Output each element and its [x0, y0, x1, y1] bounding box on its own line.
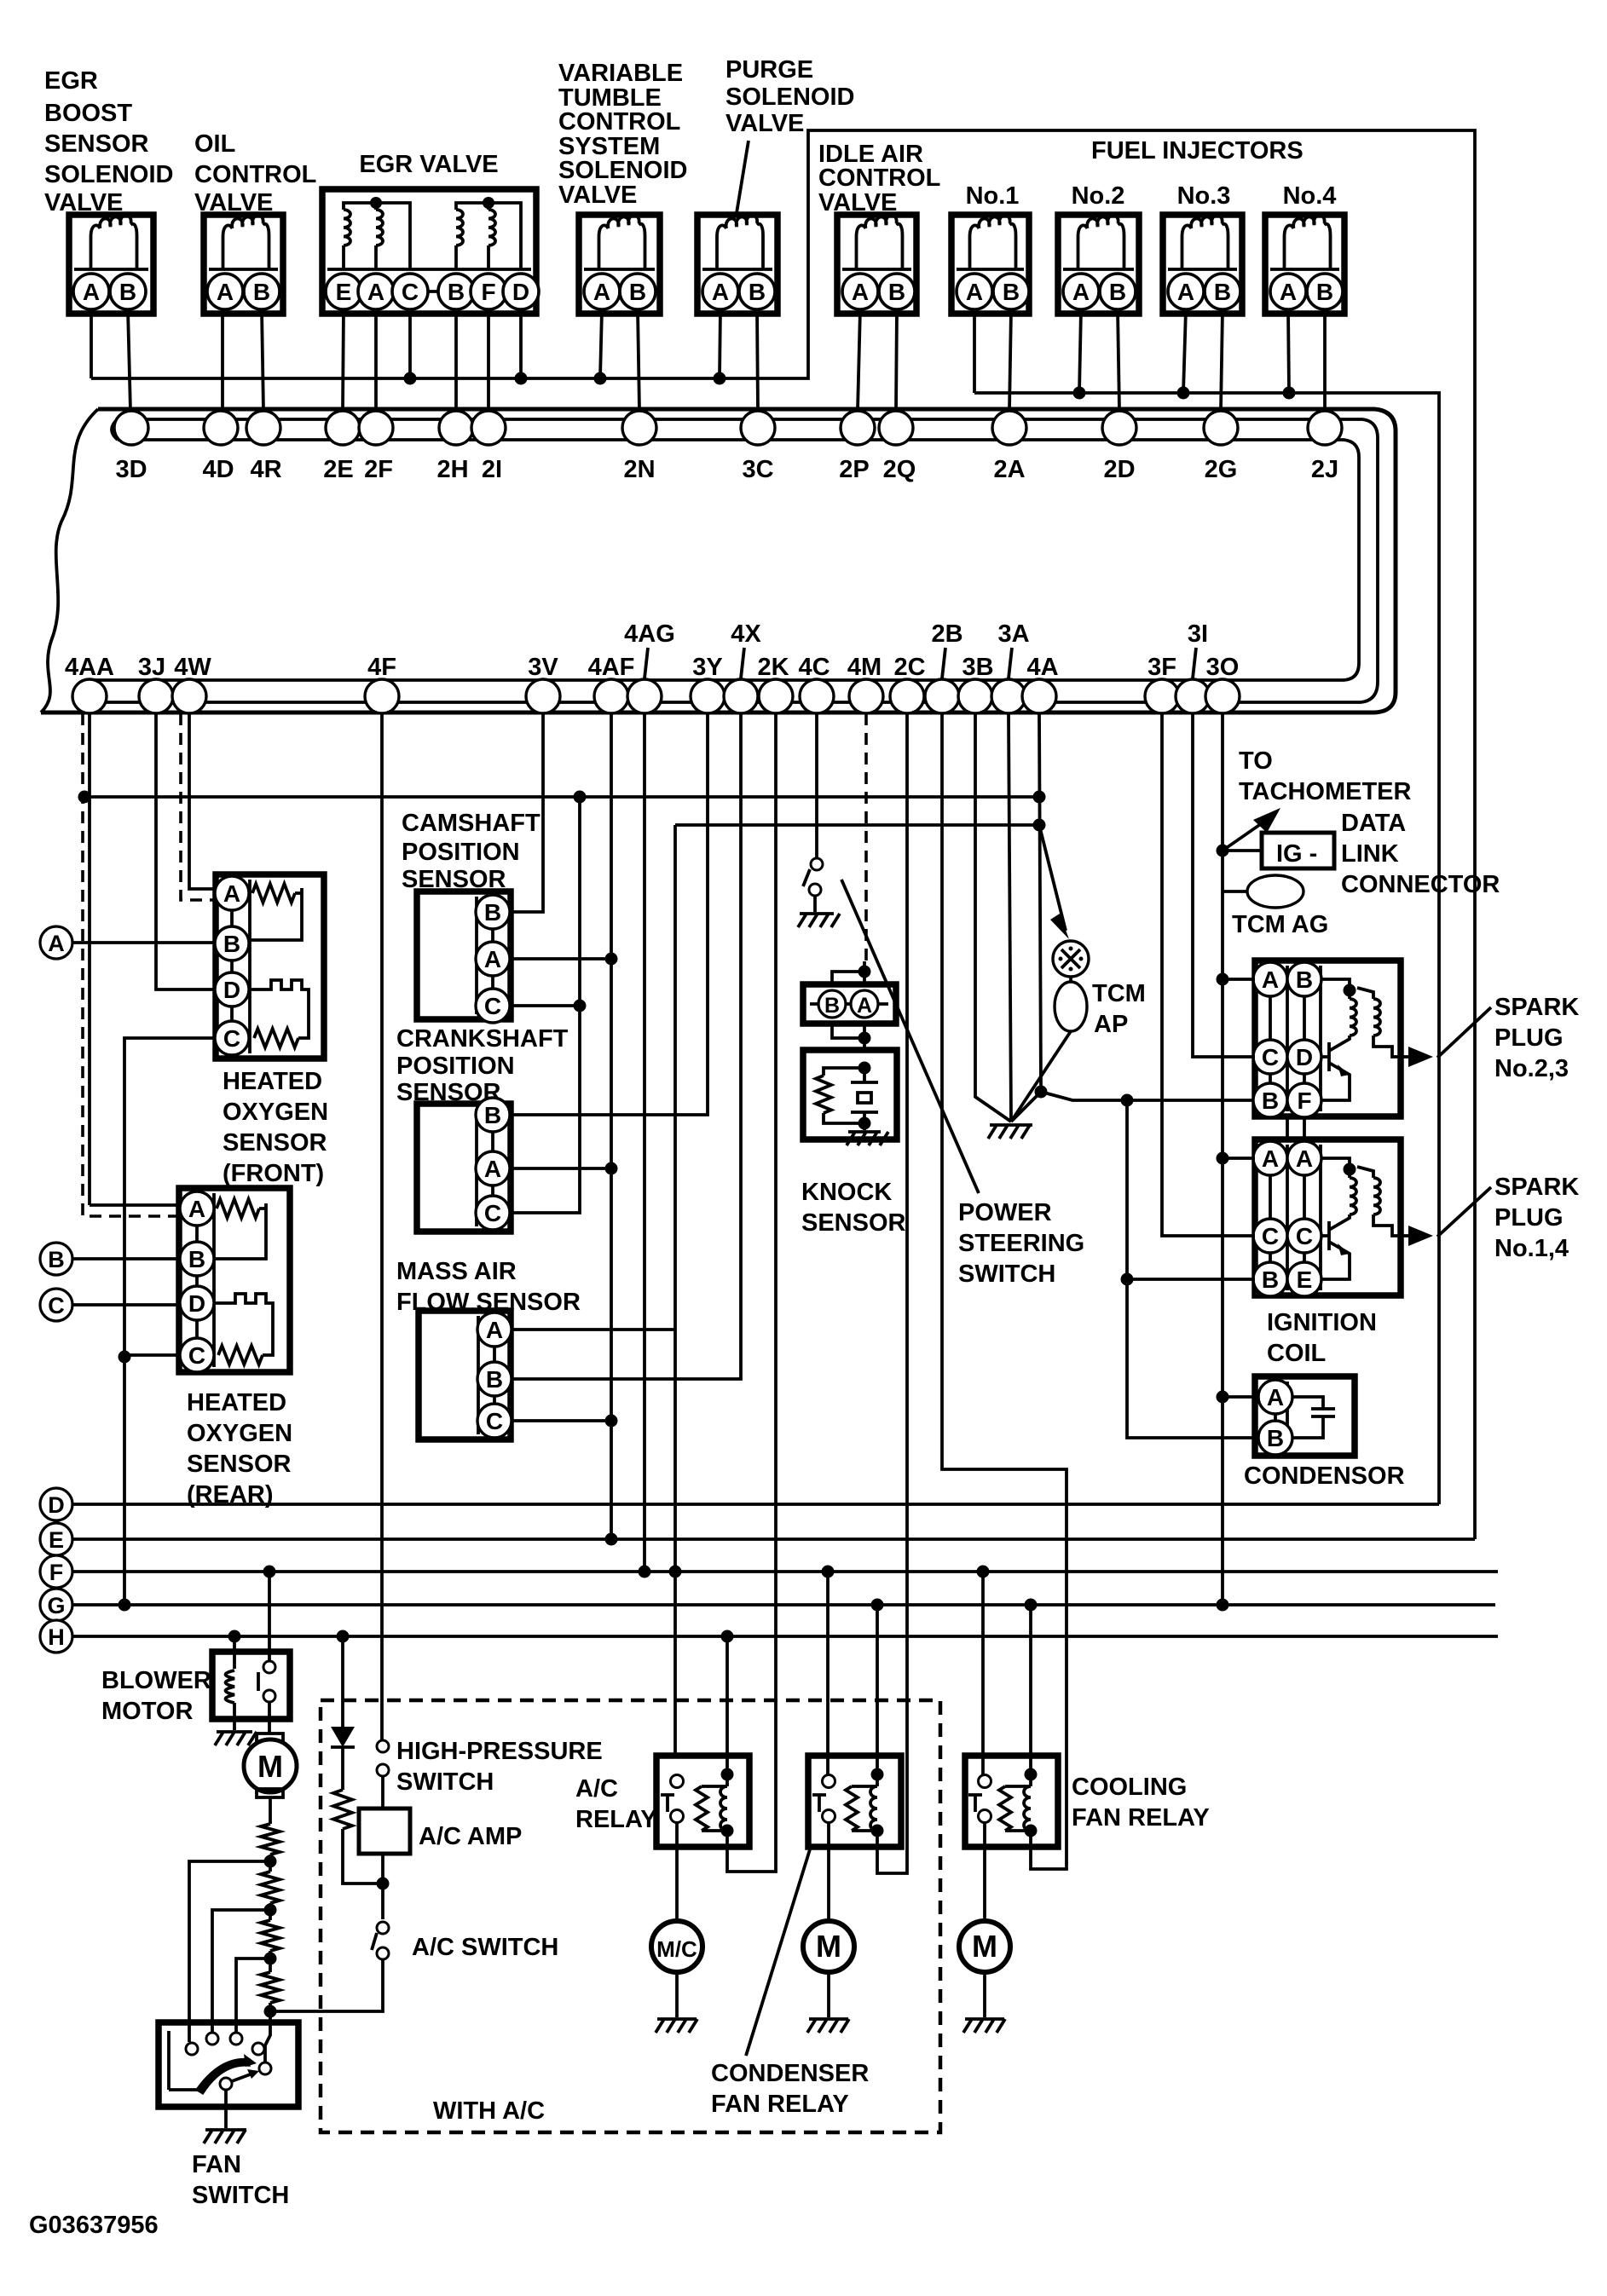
ground: cooling fan motor — [983, 1972, 986, 2017]
power steering switch — [811, 858, 823, 870]
svg-text:D: D — [48, 1492, 65, 1518]
svg-text:4A: 4A — [1026, 654, 1058, 681]
fan switch box — [159, 2022, 298, 2107]
solenoid valve: variable tumble control pins A,B — [602, 290, 638, 293]
svg-text:A: A — [857, 994, 872, 1018]
pin 4AG — [627, 679, 662, 713]
ground: power steering switch — [798, 914, 840, 927]
ground: sensor common — [988, 1125, 1032, 1139]
svg-text:B: B — [749, 279, 766, 305]
svg-text:DATA: DATA — [1341, 810, 1406, 837]
svg-text:A: A — [48, 931, 65, 956]
net: sensor ground bus (horizontal) — [84, 795, 1039, 799]
pin 2F — [359, 411, 393, 445]
wire: VTCS B to pin 2N — [638, 309, 639, 411]
condensor capacitor — [1292, 1397, 1335, 1438]
wire: switch to AC amp — [381, 1776, 384, 1809]
svg-text:AP: AP — [1094, 1011, 1128, 1038]
svg-text:D: D — [512, 279, 529, 305]
svg-text:B: B — [629, 279, 646, 305]
bus torn left edge — [41, 409, 98, 712]
svg-text:3F: 3F — [1147, 654, 1176, 681]
svg-text:STEERING: STEERING — [958, 1230, 1084, 1257]
svg-text:MOTOR: MOTOR — [101, 1698, 193, 1725]
fuel injector No.4 coil — [1285, 215, 1331, 269]
wire: MAF A — [511, 1328, 675, 1331]
svg-text:OXYGEN: OXYGEN — [223, 1099, 328, 1126]
wire: H to AC relay coil — [725, 1636, 729, 1774]
fuel injector No.2 box — [1058, 215, 1139, 314]
svg-text:2P: 2P — [839, 456, 869, 483]
svg-text:A: A — [188, 1196, 205, 1222]
crankshaft position sensor box — [417, 1104, 511, 1232]
svg-text:2K: 2K — [757, 654, 789, 681]
rear O2 sensing element resistor — [218, 1346, 263, 1364]
net 3I: to upper coil C — [1193, 713, 1255, 1057]
svg-text:3O: 3O — [1206, 654, 1240, 681]
svg-text:3B: 3B — [962, 654, 993, 681]
svg-text:A: A — [484, 1156, 501, 1182]
svg-text:CAMSHAFT: CAMSHAFT — [402, 810, 540, 837]
blower relay box — [212, 1652, 290, 1719]
junction: tap 3 — [264, 1953, 277, 1965]
heated oxygen sensor (front) box — [216, 874, 324, 1059]
svg-text:2F: 2F — [364, 456, 393, 483]
condensor connector box — [1255, 1376, 1355, 1456]
wire: purge A to rail, junction — [720, 309, 720, 378]
wire: node A to front O2 B — [72, 941, 216, 944]
wire: injector2 A to injector rail, junction — [1079, 309, 1081, 393]
fan switch lever — [220, 2078, 232, 2090]
valve: idle air control coil — [857, 215, 903, 269]
EGR valve winding pair 2 — [454, 245, 458, 269]
svg-text:A: A — [484, 946, 501, 972]
svg-text:BLOWER: BLOWER — [101, 1667, 211, 1694]
junction: coil B branch — [1121, 1094, 1134, 1107]
svg-text:4AF: 4AF — [588, 654, 635, 681]
wire: EGR valve F to pin 2I — [487, 309, 490, 411]
spark output arrow (ignition coil (lower)) — [1401, 1234, 1408, 1237]
net 4AF: cam A / crank A / MAF C to line E — [610, 713, 613, 1539]
net 2B: to cooling fan relay coil — [942, 713, 1067, 1869]
svg-text:B: B — [486, 1366, 503, 1393]
wire: injector4 B to pin 2J — [1323, 309, 1327, 411]
wire: to TCM AG — [1223, 890, 1248, 893]
pin 3I — [1176, 679, 1210, 713]
svg-text:No.2,3: No.2,3 — [1494, 1055, 1569, 1082]
junction: cooling relay contact on line F — [977, 1566, 990, 1578]
svg-text:A: A — [217, 279, 234, 305]
motor cooling fan motor — [959, 1921, 1010, 1972]
ECU connector bus outline (thick) — [41, 409, 1396, 712]
junction: 3O on line G — [1217, 1599, 1229, 1612]
ignition coil (upper) box — [1255, 961, 1401, 1116]
svg-text:SOLENOID: SOLENOID — [725, 84, 854, 111]
svg-text:G: G — [47, 1593, 65, 1618]
svg-text:2A: 2A — [993, 456, 1025, 483]
ground: condenser fan motor — [827, 1972, 830, 2017]
ignition coil (lower) power transistor — [1321, 1214, 1350, 1279]
wire: VTCS A to rail, junction — [600, 309, 602, 378]
svg-text:H: H — [48, 1624, 65, 1650]
svg-text:TCM: TCM — [1092, 980, 1146, 1007]
svg-text:2H: 2H — [436, 456, 468, 483]
svg-text:3C: 3C — [742, 456, 773, 483]
net 4X: to MAF B — [511, 713, 741, 1379]
svg-text:M: M — [816, 1929, 841, 1964]
net 2C: to condenser fan relay coil — [877, 713, 907, 1873]
svg-text:A: A — [1262, 966, 1279, 993]
spark output arrow (ignition coil (upper)) — [1401, 1055, 1408, 1059]
pin 2C — [890, 679, 924, 713]
svg-text:SENSOR: SENSOR — [44, 130, 149, 158]
svg-text:2I: 2I — [482, 456, 502, 483]
svg-text:COIL: COIL — [1267, 1340, 1326, 1367]
svg-text:FAN: FAN — [192, 2151, 241, 2178]
solenoid valve: purge pins A,B — [720, 290, 757, 293]
svg-text:2D: 2D — [1103, 456, 1135, 483]
svg-text:A: A — [83, 279, 100, 305]
wire: resistor to AC amp junction — [343, 1829, 382, 1884]
EGR VALVE box — [322, 189, 536, 314]
svg-text:E: E — [49, 1527, 64, 1553]
wire: EGR boost A to solenoid supply rail — [90, 309, 93, 378]
motor AC compressor clutch — [651, 1921, 702, 1972]
bus inner line upper row — [85, 419, 1378, 702]
A/C relay coil — [725, 1774, 729, 1786]
wire: tap2 to fan switch — [212, 1910, 270, 2033]
net G (horizontal line) — [72, 1603, 1495, 1607]
pin 4F — [365, 679, 399, 713]
svg-text:SPARK: SPARK — [1494, 994, 1579, 1021]
svg-text:2B: 2B — [931, 620, 962, 648]
junction dot on EGR winding pair 1 — [370, 197, 382, 209]
wire: relay to AC compressor clutch — [675, 1822, 679, 1921]
knock sensor shield loops — [832, 961, 864, 1050]
svg-text:B: B — [484, 1102, 501, 1128]
svg-text:E: E — [336, 279, 352, 305]
solenoid valve: purge coil — [717, 215, 763, 269]
junction: knock internal bottom — [858, 1117, 871, 1130]
pin 4X — [724, 679, 758, 713]
svg-text:D: D — [1296, 1044, 1313, 1070]
net 4AA shield (dashed) — [83, 713, 180, 1216]
wire: tap1 to fan switch — [189, 1861, 270, 2042]
junction: O2 ground on line G — [119, 1599, 131, 1612]
svg-text:SWITCH: SWITCH — [396, 1768, 494, 1796]
svg-text:3V: 3V — [528, 654, 558, 681]
junction: AC relay contact on line F — [822, 1566, 835, 1578]
rear O2 pins A B D C — [195, 1209, 199, 1355]
junction: knock internal top — [858, 1062, 871, 1075]
junction: cooling coil on line G — [1025, 1599, 1038, 1612]
svg-text:4AG: 4AG — [624, 620, 675, 648]
svg-text:C: C — [223, 1025, 240, 1052]
svg-text:B: B — [253, 279, 270, 305]
svg-text:PURGE: PURGE — [725, 56, 813, 84]
pin 3V — [526, 679, 560, 713]
svg-text:2G: 2G — [1205, 456, 1238, 483]
knock piezo element — [851, 1068, 878, 1123]
svg-text:B: B — [1214, 279, 1231, 305]
node B (off-page connector) — [40, 1243, 72, 1275]
svg-text:OIL: OIL — [194, 130, 235, 158]
high pressure switch — [377, 1740, 389, 1752]
junction: lower coil B tap — [1121, 1273, 1134, 1286]
wire: oil control A to pin 4D — [221, 309, 224, 411]
cooling fan relay contact — [979, 1775, 991, 1788]
svg-text:3I: 3I — [1188, 620, 1208, 648]
solenoid valve: oil control pins A,B — [225, 290, 262, 293]
solenoid valve: variable tumble control coil — [599, 215, 645, 269]
svg-text:CONTROL: CONTROL — [818, 164, 940, 192]
svg-text:(FRONT): (FRONT) — [223, 1160, 324, 1187]
svg-text:2C: 2C — [893, 654, 925, 681]
valve: idle air control box — [837, 215, 916, 314]
fan switch rotor arc — [196, 2059, 250, 2094]
net: solenoid supply rail — [91, 130, 1475, 1539]
fuel injector No.4 pins A,B — [1288, 290, 1325, 293]
pin 2E — [326, 411, 360, 445]
wire: motor to resistor chain — [269, 1797, 272, 1824]
pointer line: spark plug 1,4 — [1437, 1187, 1491, 1237]
blower resistor 4 — [261, 1972, 280, 2003]
IG- box (data link connector) — [1223, 849, 1262, 852]
svg-text:SWITCH: SWITCH — [192, 2182, 289, 2209]
pin 2J — [1308, 411, 1342, 445]
svg-text:VALVE: VALVE — [725, 110, 804, 137]
svg-text:C: C — [1262, 1223, 1279, 1249]
svg-text:B: B — [1316, 279, 1333, 305]
node E (off-page connector) — [40, 1523, 72, 1555]
junction: AC amp / resistor — [377, 1878, 390, 1890]
wire: EGR valve D to rail, junction — [519, 309, 523, 378]
pin 3C — [741, 411, 775, 445]
wire: cam A to 4AF — [511, 957, 611, 961]
svg-text:SOLENOID: SOLENOID — [558, 157, 687, 184]
camshaft position sensor box — [417, 891, 511, 1019]
svg-text:A: A — [1072, 279, 1090, 305]
pin 4C — [800, 679, 834, 713]
net 4W shield (dashed) — [181, 713, 216, 900]
pin 4AA — [72, 679, 107, 713]
svg-text:CONTROL: CONTROL — [194, 161, 316, 188]
junction: cam C tap — [574, 1000, 587, 1012]
svg-text:C: C — [484, 1200, 501, 1226]
cam sensor pins B A C — [491, 912, 494, 1006]
svg-text:No.4: No.4 — [1283, 182, 1337, 210]
wire: injector1 B to pin 2A — [1009, 309, 1011, 411]
svg-text:PLUG: PLUG — [1494, 1024, 1564, 1052]
wire: idle air A to pin 2P — [858, 309, 860, 411]
net 4W: shielded wire to front O2 A — [189, 713, 216, 889]
solenoid valve: EGR boost sensor pins A,B — [91, 290, 128, 293]
svg-text:A: A — [486, 1317, 503, 1343]
fuel injector No.4 box — [1265, 215, 1344, 314]
knock sensor box — [803, 1050, 897, 1139]
net: MAF A riser to 4A branch / AC relay contact — [673, 825, 677, 1756]
junction: 4AF on line E — [605, 1533, 618, 1546]
pin 3F — [1145, 679, 1179, 713]
wire: injector3 B to pin 2G — [1221, 309, 1223, 411]
junction: condenser coil on line G — [871, 1599, 884, 1612]
knock sensor connector box — [803, 984, 896, 1024]
ground: knock sensor internal — [863, 1123, 866, 1130]
ground: AC compressor clutch — [675, 1972, 679, 2017]
junction: shield to sensor-ground bus — [78, 791, 91, 804]
net 4F: to high pressure switch — [380, 713, 384, 1740]
wire: tap3 to fan switch — [236, 1959, 270, 2033]
svg-text:4C: 4C — [798, 654, 830, 681]
svg-text:A: A — [852, 279, 869, 305]
junction: AC relay coil on line H — [721, 1630, 734, 1643]
svg-text:B: B — [1262, 1266, 1279, 1293]
junction: diode branch on line H — [337, 1630, 350, 1643]
pin 4D — [204, 411, 238, 445]
pointer line from PURGE label to valve — [737, 141, 749, 213]
wire: arrow into AC indicator — [1039, 825, 1066, 931]
bus innermost line — [79, 419, 1359, 702]
crank sensor pins B A C — [491, 1115, 494, 1213]
svg-text:D: D — [223, 977, 240, 1003]
rear O2 heater resistor — [217, 1199, 259, 1218]
svg-text:POWER: POWER — [958, 1199, 1052, 1226]
pin 4AF — [594, 679, 628, 713]
svg-text:CONTROL: CONTROL — [558, 108, 680, 136]
junction: blower coil on line H — [228, 1630, 241, 1643]
wire: injector3 A to injector rail, junction — [1183, 309, 1186, 393]
pin 3B — [958, 679, 992, 713]
svg-text:SENSOR: SENSOR — [187, 1451, 292, 1478]
svg-text:D: D — [188, 1290, 205, 1317]
wire: relay to blower motor — [268, 1702, 271, 1734]
wire: F to blower relay contact — [268, 1572, 271, 1662]
junction: knock shield bottom — [858, 1032, 871, 1045]
svg-text:CRANKSHAFT: CRANKSHAFT — [396, 1025, 569, 1053]
fuel injector No.2 coil — [1078, 215, 1124, 269]
junction: tap 4 — [264, 2005, 277, 2018]
net: coil B feed riser / condensor B — [1127, 1100, 1255, 1438]
svg-text:No.1: No.1 — [966, 182, 1020, 210]
arrow: to tachometer — [1223, 814, 1275, 851]
solenoid valve: EGR boost sensor coil — [91, 215, 137, 269]
svg-text:B: B — [119, 279, 136, 305]
junction: knock shield top — [858, 966, 871, 978]
fuel injector No.1 box — [951, 215, 1029, 314]
svg-text:LINK: LINK — [1341, 840, 1399, 868]
wire: injector1 A to injector rail — [973, 309, 976, 393]
node D (off-page connector) — [40, 1488, 72, 1520]
net: injector supply rail — [974, 393, 1439, 1504]
A/C AMP box — [359, 1809, 410, 1854]
A/C switch — [377, 1922, 389, 1934]
svg-text:COOLING: COOLING — [1072, 1774, 1187, 1801]
MAF pins A B C — [493, 1330, 496, 1421]
front O2 sensing element resistor — [254, 1029, 298, 1047]
rear O2 signal pulse symbol — [214, 1294, 273, 1336]
svg-text:TCM AG: TCM AG — [1232, 911, 1328, 938]
svg-text:A/C: A/C — [575, 1775, 618, 1803]
svg-text:EGR: EGR — [44, 67, 98, 95]
node G (off-page connector) — [40, 1589, 72, 1621]
svg-text:G03637956: G03637956 — [29, 2212, 159, 2239]
svg-text:EGR VALVE: EGR VALVE — [359, 151, 498, 178]
svg-text:A/C AMP: A/C AMP — [419, 1823, 522, 1850]
wire: injector2 B to pin 2D — [1118, 309, 1119, 411]
fuel injector No.3 coil — [1182, 215, 1228, 269]
fan switch terminals — [186, 2043, 198, 2055]
wires between coil connectors — [1286, 1117, 1289, 1142]
wire: front O2 C / rear O2 C to line G — [124, 1038, 216, 1605]
solenoid valve: EGR boost sensor box — [69, 215, 153, 314]
net 3F: to lower coil C — [1162, 713, 1255, 1236]
svg-text:A: A — [1296, 1145, 1313, 1172]
wire: node B to rear O2 B — [72, 1257, 180, 1260]
pin 2G — [1204, 411, 1238, 445]
svg-text:B: B — [1109, 279, 1126, 305]
svg-text:POSITION: POSITION — [402, 839, 520, 866]
net 3Y: to crank sensor B — [511, 713, 708, 1115]
svg-text:A: A — [1267, 1384, 1284, 1410]
wire: EGR valve E to pin 2E — [343, 309, 344, 411]
net 3A: to sensor ground point — [1009, 713, 1011, 1122]
svg-text:4F: 4F — [367, 654, 396, 681]
svg-text:SOLENOID: SOLENOID — [44, 161, 173, 188]
blower resistor 1 — [261, 1824, 280, 1855]
ignition coil (lower) box — [1255, 1139, 1401, 1295]
wire: H to blower relay coil — [233, 1636, 236, 1669]
svg-text:C: C — [484, 993, 501, 1019]
ignition coil (upper) power transistor — [1321, 1036, 1350, 1100]
node H (off-page connector) — [40, 1620, 72, 1653]
svg-text:A: A — [712, 279, 729, 305]
ground: fan switch — [224, 2090, 228, 2128]
svg-text:HEATED: HEATED — [187, 1389, 286, 1416]
fuel injector No.3 pins A,B — [1186, 290, 1223, 293]
svg-text:A: A — [593, 279, 610, 305]
solenoid valve: variable tumble control box — [579, 215, 660, 314]
net 4AA: shielded wire to rear O2 A — [88, 713, 91, 1205]
front O2 pins A B D C — [230, 893, 234, 1038]
wire: EGR valve B to pin 2H — [454, 309, 458, 411]
wire: F to condenser relay contact — [826, 1572, 830, 1775]
pin 3Y — [691, 679, 725, 713]
wire: oil control B to pin 4R — [262, 309, 263, 411]
svg-text:IG -: IG - — [1276, 840, 1317, 868]
pin 3J — [139, 679, 173, 713]
svg-text:B: B — [1296, 966, 1313, 993]
svg-text:B: B — [48, 1247, 65, 1272]
junction: on line F — [669, 1566, 682, 1578]
pin 4M — [849, 679, 883, 713]
junction: IG- tap — [1217, 845, 1229, 857]
node A (off-page connector) — [40, 926, 72, 959]
pin 2N — [622, 411, 656, 445]
net 4C: to power steering switch — [815, 713, 818, 858]
TCM AP ellipse — [1055, 982, 1087, 1031]
wire: EGR valve C to rail, junction — [408, 309, 412, 378]
svg-text:B: B — [1267, 1425, 1284, 1451]
wire: EGR boost B to pin 3D — [128, 309, 130, 411]
pin 2Q — [879, 411, 913, 445]
svg-text:4X: 4X — [731, 620, 761, 648]
pin 2P — [841, 411, 875, 445]
pin 2A — [992, 411, 1026, 445]
EGR valve pins E A C B F D — [344, 290, 521, 293]
junction: rear O2 C tap — [119, 1351, 131, 1364]
wire: 3O to upper coil A — [1223, 978, 1255, 981]
svg-text:3J: 3J — [138, 654, 165, 681]
